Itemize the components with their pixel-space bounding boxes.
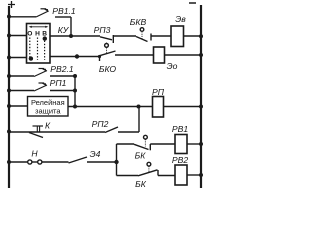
coil Eo: [154, 47, 165, 63]
wire: [165, 54, 202, 56]
svg-text:РВ1.1: РВ1.1: [52, 6, 76, 16]
wire: [115, 54, 154, 56]
contact K: [29, 126, 43, 138]
wire bus to KY row1: [9, 35, 27, 37]
svg-text:Эо: Эо: [167, 61, 178, 71]
svg-text:РП2: РП2: [92, 119, 109, 129]
svg-text:БК: БК: [135, 179, 147, 189]
svg-text:КУ: КУ: [58, 25, 70, 35]
wire: [138, 107, 140, 133]
svg-text:РВ2.1: РВ2.1: [50, 64, 74, 74]
wire: [184, 35, 202, 37]
node F: [114, 160, 118, 164]
node: bus / KY row2: [7, 56, 11, 60]
wire KY row1 to RP3: [50, 35, 100, 37]
contact BKB: [136, 28, 151, 42]
contact RP3: [100, 35, 113, 43]
node B: [73, 74, 77, 78]
node: bus / RP1: [7, 89, 11, 93]
contact PB1.1 (time relay contact): [36, 9, 49, 17]
right bus: [200, 5, 202, 188]
node E: [137, 105, 141, 109]
contact RP2: [105, 127, 118, 133]
svg-text:РВ1: РВ1: [172, 124, 188, 134]
wire: [50, 75, 75, 77]
node: right bus / RP: [199, 105, 203, 109]
arrow inside KY box: [29, 26, 49, 28]
node A: [69, 34, 73, 38]
node: right bus / PB2: [199, 173, 203, 177]
svg-text:БКО: БКО: [99, 64, 117, 74]
wire: [42, 161, 69, 163]
svg-text:защита: защита: [35, 107, 61, 116]
node G on BKO rung: [75, 54, 79, 58]
contact BK lower: [138, 162, 158, 176]
wire bus to KY row2: [9, 57, 27, 59]
wire: [9, 131, 105, 133]
wire: [118, 131, 139, 133]
wire: [87, 161, 117, 163]
plus terminal: [8, 1, 15, 8]
contact PB2.1 (time relay contact): [34, 69, 47, 77]
node: right bus / Ev: [199, 34, 203, 38]
wire: [68, 106, 153, 108]
wire: [50, 90, 75, 92]
svg-text:РВ2: РВ2: [172, 155, 188, 165]
wire: [9, 16, 36, 18]
node: bus / PB2.1: [7, 74, 11, 78]
wire: [150, 143, 175, 145]
svg-text:РП3: РП3: [94, 25, 111, 35]
wire KY row2 to BKO: [50, 56, 99, 58]
wire: [9, 75, 34, 77]
wire: [74, 76, 76, 107]
contact E4: [69, 157, 88, 163]
dashed position line H: [37, 38, 39, 61]
svg-text:О: О: [27, 30, 32, 37]
dashed position line O: [29, 38, 31, 61]
svg-text:РП: РП: [152, 87, 165, 97]
node: bus / H rung: [7, 160, 11, 164]
svg-text:К: К: [45, 120, 51, 130]
command controller KY box: [27, 24, 51, 64]
wire: [9, 90, 34, 92]
contact BKO: [98, 43, 116, 61]
wire: [151, 35, 171, 37]
svg-text:РП1: РП1: [50, 78, 67, 88]
wire: [117, 143, 135, 145]
wire: [55, 16, 71, 18]
button H circle 2: [38, 160, 42, 164]
wire: [9, 105, 28, 107]
coil RP: [153, 97, 164, 118]
wire: [158, 175, 175, 177]
relay protection box: [28, 97, 69, 117]
coil PB2: [175, 165, 187, 185]
wire: [70, 17, 72, 36]
contact BK upper: [134, 135, 150, 150]
wire: [9, 161, 28, 163]
node: right bus / Eo: [199, 53, 203, 57]
svg-text:Э4: Э4: [90, 149, 101, 159]
wire: [117, 175, 139, 177]
minus terminal: [189, 2, 196, 4]
node: bus / relay protection: [7, 104, 11, 108]
node: bus / KY row1: [7, 34, 11, 38]
svg-text:Эв: Эв: [175, 14, 186, 24]
wire: [32, 161, 38, 163]
button H circle 1: [28, 160, 32, 164]
svg-text:Н: Н: [35, 30, 40, 37]
svg-text:БКВ: БКВ: [130, 17, 147, 27]
svg-text:Н: Н: [31, 148, 38, 158]
node: right bus / PB1: [199, 142, 203, 146]
svg-text:В: В: [42, 30, 47, 37]
wire: [164, 106, 202, 108]
contact RP1: [34, 83, 47, 91]
node C: [73, 89, 77, 93]
wire: [187, 174, 201, 176]
node: bus / K rung: [7, 130, 11, 134]
wire vertical branch: [116, 144, 118, 176]
node: left bus / PB1.1 rung: [7, 15, 11, 19]
wire: [114, 35, 137, 37]
wire: [187, 143, 201, 145]
left bus: [8, 6, 10, 188]
coil PB1: [175, 135, 187, 154]
coil Ev: [171, 26, 184, 47]
svg-text:БК: БК: [135, 150, 147, 160]
node D: [73, 105, 77, 109]
dashed position line B: [44, 38, 46, 61]
closure dot B column: [43, 36, 47, 40]
closure dot O column: [29, 56, 33, 60]
